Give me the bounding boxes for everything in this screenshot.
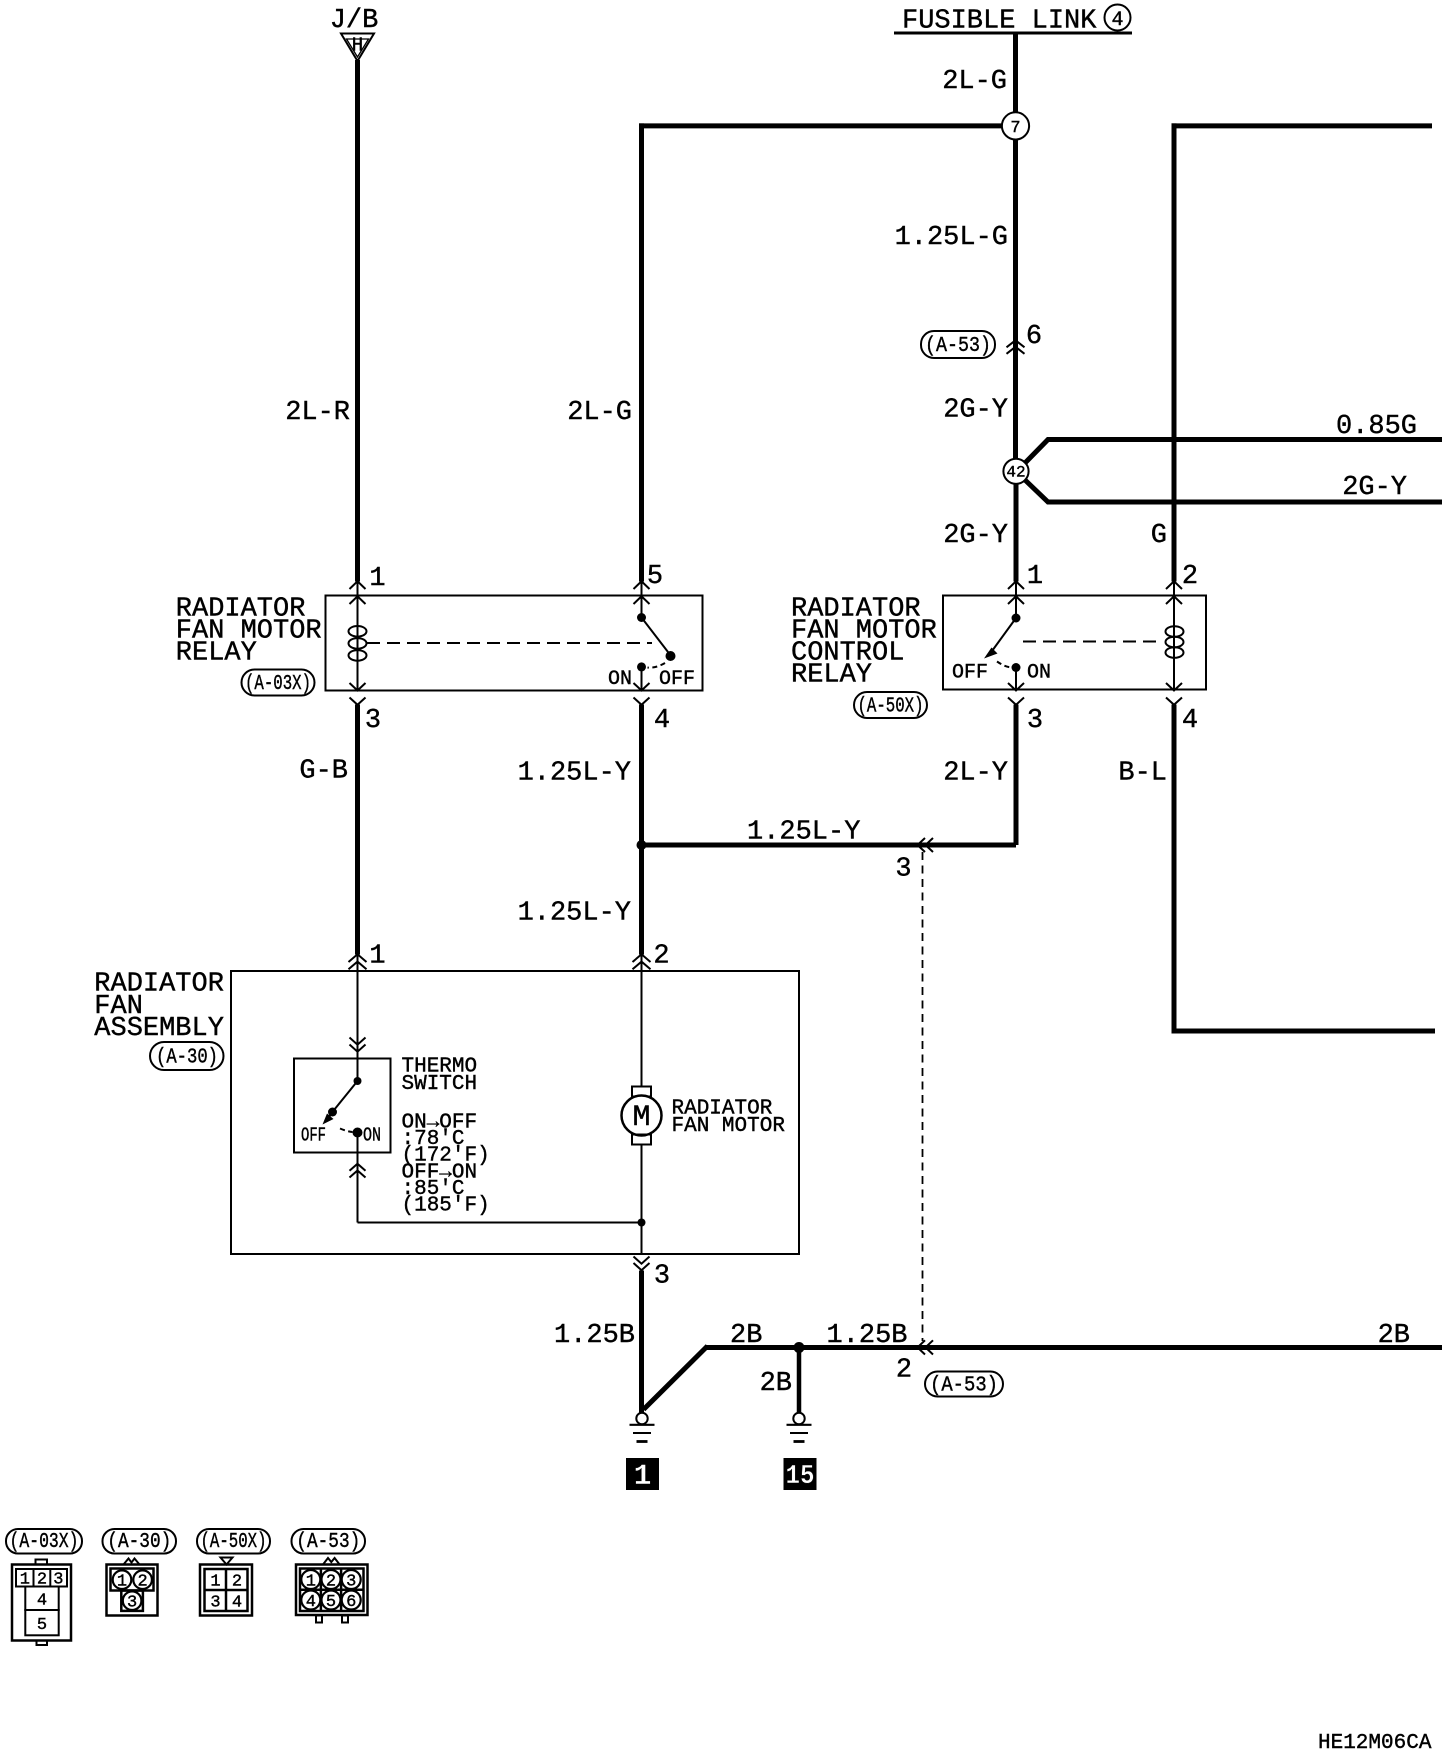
pin number 3 branch xyxy=(895,855,911,885)
junction dot 1.25L-Y xyxy=(637,840,647,850)
wire G vertical at right xyxy=(1172,123,1177,581)
svg-text:2L-G: 2L-G xyxy=(942,67,1007,97)
ground symbol 15 xyxy=(787,1413,812,1442)
label 2B small xyxy=(760,1369,792,1399)
svg-text:2G-Y: 2G-Y xyxy=(1342,473,1407,503)
svg-text:2: 2 xyxy=(653,942,669,972)
svg-text:OFF: OFF xyxy=(659,668,695,691)
label 1.25B mid xyxy=(827,1321,908,1351)
label 1.25L-Y lower xyxy=(518,899,631,929)
thermo switch contacts xyxy=(323,1059,363,1153)
svg-text:3: 3 xyxy=(127,1594,137,1613)
svg-text:15: 15 xyxy=(786,1462,815,1492)
relay K1 switch xyxy=(637,581,676,690)
relay K1 linkage dashed line xyxy=(367,642,652,644)
wire 2L-R vertical from J/B to relay pin 1 xyxy=(355,60,360,582)
label 1.25L-Y branch xyxy=(747,818,860,848)
fusible link bus bar xyxy=(894,32,1132,35)
pin number 4 relay K2 xyxy=(1182,706,1198,736)
wire thermo to motor junction xyxy=(358,1222,642,1224)
relay K1 coil xyxy=(349,626,367,661)
svg-text:2L-R: 2L-R xyxy=(285,398,350,428)
svg-text:1: 1 xyxy=(306,1572,316,1591)
svg-text:5: 5 xyxy=(37,1616,47,1635)
wire G-B relay K1 pin 3 down xyxy=(355,705,360,955)
relay K1 coil wire xyxy=(357,581,359,690)
label G xyxy=(1151,521,1167,551)
assembly label RADIATOR FAN ASSEMBLY xyxy=(94,970,224,1044)
pin 2 connector chevrons on bus xyxy=(918,1340,934,1354)
svg-text:(A-53): (A-53) xyxy=(296,1531,360,1554)
ground reference box 1 xyxy=(626,1458,659,1494)
svg-text:RELAY: RELAY xyxy=(791,661,872,691)
relay K1 box xyxy=(326,596,703,691)
label B-L xyxy=(1118,759,1167,789)
junction circle 42 xyxy=(1003,459,1028,484)
connector label A-53 bottom xyxy=(925,1372,1003,1398)
dashed wire A-53 pin 3 to pin 2 xyxy=(922,852,924,1341)
connector label A-30 xyxy=(150,1042,224,1070)
svg-text:H: H xyxy=(352,35,363,57)
svg-text:G: G xyxy=(1151,521,1167,551)
relay K2 linkage dashed line xyxy=(1023,641,1163,643)
label 0.85G xyxy=(1336,412,1417,442)
svg-text:2: 2 xyxy=(137,1573,147,1592)
svg-text:42: 42 xyxy=(1006,464,1025,482)
svg-text:J/B: J/B xyxy=(330,6,379,36)
svg-text:4: 4 xyxy=(37,1592,47,1611)
relay K2 switch xyxy=(984,581,1021,690)
wire 2B drop to ground 15 xyxy=(797,1348,802,1413)
pin 6 connector chevrons on wire xyxy=(1007,340,1025,354)
thermo OFF label xyxy=(301,1125,326,1147)
relay K1 ON label xyxy=(608,668,632,691)
svg-text:(A-53): (A-53) xyxy=(930,1375,998,1398)
relay K1 label RADIATOR FAN MOTOR RELAY xyxy=(176,595,322,669)
svg-text:HE12M06CA: HE12M06CA xyxy=(1318,1732,1432,1754)
wire 1.25B to ground xyxy=(639,1271,644,1413)
label 1.25B left xyxy=(554,1321,635,1351)
relay K2 pin 1 chevrons xyxy=(1008,581,1024,604)
motor M radiator fan motor xyxy=(622,1087,662,1145)
svg-text:4: 4 xyxy=(654,706,670,736)
svg-text:OFF: OFF xyxy=(952,662,988,685)
wire 2G-Y below junction 42 xyxy=(1014,484,1019,582)
wire B-L relay K2 pin 4 down and right xyxy=(1174,705,1435,1032)
label 2G-Y lower xyxy=(943,521,1008,551)
label 2G-Y right xyxy=(1342,473,1407,503)
pin 3 connector chevrons on branch xyxy=(918,838,934,852)
relay K2 label RADIATOR FAN MOTOR CONTROL RELAY xyxy=(791,595,937,691)
svg-text:4: 4 xyxy=(306,1593,316,1612)
svg-text:6: 6 xyxy=(346,1593,356,1612)
wire 2L-G vertical to relay pin 5 xyxy=(639,123,644,581)
junction dot motor/thermo xyxy=(638,1219,646,1227)
svg-text:1.25L-G: 1.25L-G xyxy=(895,223,1008,253)
label FUSIBLE LINK 4 xyxy=(902,5,1131,37)
inline chevrons below thermo xyxy=(350,1164,366,1178)
ground symbol 1 xyxy=(630,1413,655,1442)
connector label A-53 top xyxy=(921,331,995,358)
thermo ON label xyxy=(363,1125,381,1147)
svg-text:(A-50X): (A-50X) xyxy=(858,696,924,719)
svg-text:1.25L-Y: 1.25L-Y xyxy=(747,818,860,848)
relay K2 box xyxy=(943,596,1206,690)
svg-text:(A-30): (A-30) xyxy=(156,1047,218,1070)
svg-text:1: 1 xyxy=(369,942,385,972)
wire 1.25L-G below junction 7 xyxy=(1013,140,1018,459)
svg-text:(A-03X): (A-03X) xyxy=(245,673,311,696)
label 2L-G left xyxy=(567,398,632,428)
label G-B xyxy=(299,757,348,787)
svg-text:1.25L-Y: 1.25L-Y xyxy=(518,759,631,789)
svg-text:1: 1 xyxy=(210,1573,220,1592)
svg-text:2G-Y: 2G-Y xyxy=(943,396,1008,426)
svg-text:SWITCH: SWITCH xyxy=(402,1073,478,1096)
svg-text:ON: ON xyxy=(363,1125,381,1147)
label 1.25L-G xyxy=(895,223,1008,253)
label 2B left xyxy=(730,1321,762,1351)
wire 2L-G from fusible link to junction 7 xyxy=(1013,33,1018,113)
label 2L-G right xyxy=(942,67,1007,97)
svg-text:(185'F): (185'F) xyxy=(402,1195,490,1218)
wire 1.25L-Y relay K1 pin 4 down xyxy=(639,705,644,955)
svg-text:ASSEMBLY: ASSEMBLY xyxy=(94,1014,224,1044)
label 2L-Y xyxy=(943,759,1008,789)
svg-text:2: 2 xyxy=(326,1572,336,1591)
svg-text:(A-53): (A-53) xyxy=(925,335,991,358)
svg-text:7: 7 xyxy=(1010,119,1020,138)
svg-text:3: 3 xyxy=(365,706,381,736)
node J/B label xyxy=(330,6,379,36)
svg-text:5: 5 xyxy=(647,562,663,592)
svg-text:RELAY: RELAY xyxy=(176,639,257,669)
inline chevrons on thermo wire xyxy=(350,1038,366,1052)
thermo temperature annotations xyxy=(402,1112,490,1218)
svg-text:M: M xyxy=(632,1101,650,1135)
connector label A-03X xyxy=(242,670,315,697)
svg-text:1: 1 xyxy=(369,564,385,594)
relay K2 coil wire xyxy=(1173,581,1175,690)
relay K2 pin 2 chevrons xyxy=(1166,581,1182,604)
pin number 3 relay K1 xyxy=(365,706,381,736)
svg-text:OFF: OFF xyxy=(301,1125,326,1147)
wire 1.25L-Y horizontal branch xyxy=(642,843,1017,848)
connector label A-03X bottom xyxy=(6,1529,82,1554)
wire pin2 to motor xyxy=(641,954,643,1087)
svg-text:ON: ON xyxy=(608,668,632,691)
assembly pin 2 double chevron xyxy=(633,954,651,969)
wire G horizontal top right xyxy=(1172,123,1433,128)
svg-text:1: 1 xyxy=(633,1460,651,1494)
svg-text:1: 1 xyxy=(117,1573,127,1592)
relay K1 pin 4 chevrons xyxy=(634,683,650,705)
ground reference box 15 xyxy=(784,1458,817,1492)
svg-text:3: 3 xyxy=(346,1572,356,1591)
svg-text:B-L: B-L xyxy=(1118,759,1167,789)
svg-text:4: 4 xyxy=(1111,9,1123,32)
drawing number HE12M06CA xyxy=(1318,1732,1432,1754)
svg-text:2: 2 xyxy=(1182,562,1198,592)
svg-text:2L-Y: 2L-Y xyxy=(943,759,1008,789)
relay K1 pin 1 chevrons xyxy=(350,581,366,604)
relay K2 pin 4 chevrons xyxy=(1166,683,1182,705)
pin number 3 relay K2 xyxy=(1027,706,1043,736)
label RADIATOR FAN MOTOR xyxy=(672,1098,786,1139)
svg-text:ON: ON xyxy=(1027,662,1051,685)
svg-text:0.85G: 0.85G xyxy=(1336,412,1417,442)
wire diagonal ground to 2B bus xyxy=(644,1346,708,1410)
wire below thermo switch xyxy=(357,1153,359,1223)
svg-text:G-B: G-B xyxy=(299,757,348,787)
relay K2 OFF label xyxy=(952,662,988,685)
connector label A-30 bottom xyxy=(103,1529,177,1554)
svg-text:(A-50X): (A-50X) xyxy=(201,1531,267,1554)
svg-text:6: 6 xyxy=(1026,322,1042,352)
junction circle 7 xyxy=(1002,112,1029,139)
wire fanout upper 0.85G xyxy=(1025,440,1443,464)
svg-text:3: 3 xyxy=(210,1594,220,1613)
svg-text:(A-03X): (A-03X) xyxy=(10,1531,79,1554)
svg-text:5: 5 xyxy=(326,1593,336,1612)
connector label A-50X xyxy=(854,692,927,719)
wire motor down xyxy=(641,1145,643,1255)
svg-text:1: 1 xyxy=(1027,562,1043,592)
svg-text:1.25L-Y: 1.25L-Y xyxy=(518,899,631,929)
pin number 1 relay K2 xyxy=(1027,562,1043,592)
pin number 3 assembly xyxy=(654,1262,670,1292)
relay K2 ON label xyxy=(1027,662,1051,685)
svg-text:2B: 2B xyxy=(760,1369,792,1399)
relay K1 OFF label xyxy=(659,668,695,691)
connector A-50X pinout drawing xyxy=(200,1558,252,1616)
svg-text:(A-30): (A-30) xyxy=(107,1531,171,1554)
label 2B right xyxy=(1378,1321,1410,1351)
svg-text:1.25B: 1.25B xyxy=(554,1321,635,1351)
svg-text:FAN MOTOR: FAN MOTOR xyxy=(672,1115,786,1138)
pin number 1 assembly xyxy=(369,942,385,972)
pin number 2 assembly xyxy=(653,942,669,972)
svg-text:3: 3 xyxy=(654,1262,670,1292)
svg-text:4: 4 xyxy=(232,1594,242,1613)
wire 2L-Y relay K2 pin 3 down xyxy=(1014,705,1019,846)
assembly box A-30 xyxy=(231,971,799,1254)
assembly pin 3 double chevron xyxy=(634,1257,650,1271)
connector A-53 pinout drawing xyxy=(296,1558,368,1623)
svg-text:2B: 2B xyxy=(730,1321,762,1351)
svg-text:2B: 2B xyxy=(1378,1321,1410,1351)
connector label A-53 bottom row xyxy=(292,1529,366,1554)
junction dot ground bus xyxy=(794,1342,805,1353)
relay K2 coil xyxy=(1166,626,1184,658)
svg-text:3: 3 xyxy=(1027,706,1043,736)
wire into thermo switch xyxy=(357,954,359,1058)
pin number 4 relay K1 xyxy=(654,706,670,736)
svg-text:2: 2 xyxy=(896,1356,912,1386)
connector A-30 pinout drawing xyxy=(107,1559,158,1616)
connector label A-50X bottom xyxy=(197,1529,270,1554)
pin number 5 relay K1 xyxy=(647,562,663,592)
assembly pin 1 double chevron xyxy=(349,954,367,969)
connector A-03X pinout drawing xyxy=(12,1560,71,1646)
svg-text:2G-Y: 2G-Y xyxy=(943,521,1008,551)
svg-text:3: 3 xyxy=(895,855,911,885)
connector H triangle symbol xyxy=(341,34,374,62)
label THERMO SWITCH xyxy=(402,1056,478,1097)
thermo switch box xyxy=(294,1059,391,1153)
relay K1 pin 3 chevrons xyxy=(350,683,366,705)
svg-text:4: 4 xyxy=(1182,706,1198,736)
svg-text:2L-G: 2L-G xyxy=(567,398,632,428)
svg-text:1.25B: 1.25B xyxy=(827,1321,908,1351)
relay K1 pin 5 chevrons xyxy=(634,581,650,604)
relay K2 pin 3 chevrons xyxy=(1008,683,1024,705)
pin number 6 xyxy=(1026,322,1042,352)
pin number 1 relay K1 xyxy=(369,564,385,594)
wire 2B ground bus xyxy=(705,1345,1442,1350)
label 2L-R xyxy=(285,398,350,428)
pin number 2 relay K2 xyxy=(1182,562,1198,592)
label 1.25L-Y upper xyxy=(518,759,631,789)
wire fanout lower 2G-Y xyxy=(1025,480,1443,503)
wire horizontal from junction 7 to 2L-G drop xyxy=(639,123,1002,128)
svg-text:2: 2 xyxy=(232,1573,242,1592)
label 2G-Y upper xyxy=(943,396,1008,426)
pin number 2 bus xyxy=(896,1356,912,1386)
